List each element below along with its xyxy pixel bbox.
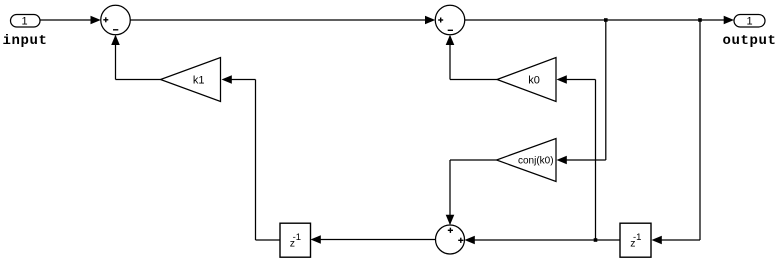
svg-text:k0: k0 (528, 75, 540, 87)
sum Sum1 (101, 5, 131, 35)
gain k1 (161, 58, 221, 102)
wire Sum2 to outport (465, 16, 734, 25)
svg-text:conj(k0): conj(k0) (518, 156, 554, 167)
wire delay left output to k1 input (222, 75, 281, 240)
delay z-1 left (280, 223, 311, 257)
wire Sum1 to Sum2 (130, 16, 435, 25)
wire junction B down to delay right input (652, 20, 701, 244)
wire delay right output to Sum3 plus input (465, 236, 621, 245)
wire junction A down to conj(k0) input (557, 20, 606, 164)
delay z-1 right (620, 223, 651, 257)
wire k1 output to Sum1 minus input (111, 35, 160, 80)
gain conj(k0) (497, 139, 557, 182)
wire Sum3 output to delay left input (311, 235, 436, 244)
junction dot B (698, 18, 702, 22)
sum Sum3 bottom (436, 225, 465, 254)
svg-text:-1: -1 (633, 232, 641, 243)
wire input to Sum1 (40, 16, 101, 25)
svg-text:1: 1 (22, 16, 28, 28)
sum Sum2 (435, 5, 465, 35)
junction dot A (604, 18, 608, 22)
gain k0 (497, 58, 556, 102)
inport 1 (11, 15, 41, 28)
wire k0 output to Sum2 minus input (446, 35, 497, 80)
outport 1 (734, 15, 765, 28)
svg-text:1: 1 (747, 16, 753, 28)
wire junction C up to k0 input (557, 75, 596, 240)
junction dot C (594, 238, 598, 242)
svg-text:input: input (2, 33, 47, 49)
wire conj(k0) output to Sum3 plus top input (446, 160, 497, 225)
svg-text:output: output (722, 33, 776, 49)
svg-text:k1: k1 (193, 75, 205, 87)
svg-text:-1: -1 (293, 232, 301, 243)
